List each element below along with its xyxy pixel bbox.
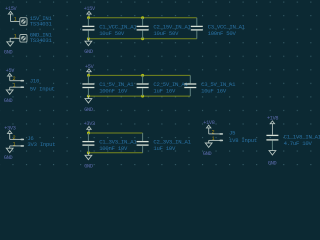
- ground symbol row1 GND: [84, 39, 93, 56]
- power symbol PWR08 +1V8 (cap): [267, 115, 278, 134]
- ground symbol left input GND: [4, 42, 14, 56]
- svg-text:100nF 16V: 100nF 16V: [99, 88, 128, 95]
- svg-text:GND: GND: [4, 49, 13, 55]
- wire 15V bottom bus: [88, 38, 196, 40]
- svg-text:5V Input: 5V Input: [30, 86, 55, 93]
- junction row2 top at C1: [87, 74, 90, 77]
- power symbol PWR01 +15V: [5, 6, 17, 14]
- junction row1 bottom at C2: [141, 37, 144, 40]
- svg-text:TS34031: TS34031: [30, 20, 53, 27]
- svg-text:J10: J10: [30, 77, 40, 84]
- connector pin J5 pin 2: [209, 129, 223, 135]
- wire 5V top bus: [89, 74, 191, 76]
- svg-text:1: 1: [13, 83, 16, 89]
- svg-text:+15V: +15V: [84, 6, 96, 12]
- svg-text:2: 2: [13, 76, 16, 82]
- wire J10 pin 1 to GND: [9, 87, 11, 90]
- junction row2 top at C2: [141, 74, 144, 77]
- connector pin J6 pin 2: [10, 135, 24, 141]
- svg-text:+15V: +15V: [5, 6, 17, 12]
- svg-text:10uF 50V: 10uF 50V: [153, 30, 179, 37]
- terminal 15V_IN1: [20, 18, 27, 26]
- wire 3V3 top bus: [89, 132, 143, 134]
- wire +15V arrow to 15V_IN1 pin: [11, 21, 20, 23]
- capacitor C1_3V3_IN_A1: [82, 133, 137, 153]
- svg-text:GND: GND: [4, 155, 13, 161]
- junction row3 top at C1: [87, 132, 90, 135]
- power symbol PWR07 +1V8 (J5): [203, 120, 214, 128]
- svg-text:2: 2: [212, 129, 215, 135]
- wire 15V top bus: [89, 17, 197, 19]
- svg-text:GND: GND: [4, 98, 13, 104]
- svg-text:1uF 16V: 1uF 16V: [153, 88, 176, 95]
- svg-text:10uF 50V: 10uF 50V: [99, 30, 125, 37]
- junction row1 top at C2: [141, 16, 144, 19]
- wire +1V8 to J5 pin 2: [208, 128, 210, 134]
- wire +5V to J10 pin 2: [9, 76, 11, 81]
- svg-text:GND: GND: [203, 151, 212, 157]
- svg-text:+5V: +5V: [6, 68, 16, 74]
- svg-text:GND: GND: [84, 164, 93, 170]
- capacitor C1_5V_IN_A1: [82, 75, 134, 96]
- power symbol PWR05 +5V (J10): [6, 68, 16, 76]
- power symbol PWR06 +3V3 (J6): [4, 126, 15, 134]
- connector pin J6 pin 1: [10, 141, 24, 147]
- ground symbol row2 GND: [84, 96, 93, 113]
- wire 5V bottom bus: [88, 95, 190, 97]
- svg-text:GND: GND: [268, 161, 277, 167]
- junction row2 bottom at C2: [141, 95, 144, 98]
- power symbol PWR04 +3V3 (row3): [84, 121, 95, 133]
- svg-text:2: 2: [13, 135, 16, 141]
- capacitor C2_3V3_IN_A1: [137, 133, 192, 153]
- svg-text:1: 1: [212, 136, 215, 142]
- svg-text:1uF 10V: 1uF 10V: [153, 145, 176, 152]
- ground symbol row3 GND: [84, 153, 93, 170]
- svg-text:3V3 Input: 3V3 Input: [27, 141, 55, 148]
- svg-text:1: 1: [14, 33, 17, 39]
- svg-text:GND: GND: [84, 107, 93, 113]
- junction row1 bottom at C1: [87, 37, 90, 40]
- wire +3V3 to J6 pin 2: [9, 133, 11, 139]
- svg-text:+5V: +5V: [85, 64, 95, 70]
- svg-text:TS34031: TS34031: [30, 37, 53, 44]
- svg-text:1V8 Input: 1V8 Input: [229, 137, 257, 144]
- junction row3 bottom at C1: [87, 151, 90, 154]
- wire GND_IN1 pin to GND: [10, 38, 19, 42]
- capacitor C3_VCC_IN_A1: [191, 18, 246, 39]
- svg-text:GND: GND: [84, 49, 93, 55]
- capacitor C2_5V_IN_A1: [137, 75, 189, 96]
- junction row2 bottom at C1: [87, 95, 90, 98]
- ground symbol J6 GND: [4, 148, 13, 161]
- svg-text:1: 1: [13, 141, 16, 147]
- wire 3V3 bottom bus: [88, 152, 142, 154]
- svg-text:100nF 50V: 100nF 50V: [208, 30, 237, 37]
- capacitor C1_1V8_IN_A1: [266, 134, 320, 151]
- power symbol PWR03 +5V (row2): [85, 64, 95, 76]
- capacitor C1_VCC_IN_A1: [82, 18, 137, 39]
- svg-text:4.7uF 10V: 4.7uF 10V: [284, 140, 313, 147]
- power symbol PWR02 +15V (row1): [84, 6, 96, 18]
- ground symbol J5 GND: [203, 143, 212, 157]
- ground symbol 1V8 GND: [268, 151, 277, 167]
- svg-text:1: 1: [14, 17, 17, 23]
- capacitor C2_15V_IN_A1: [137, 18, 192, 39]
- connector pin J10 pin 1: [10, 83, 24, 89]
- wire J5 pin 1 to GND: [208, 140, 210, 143]
- terminal GND_IN1: [20, 35, 27, 43]
- wire J6 pin 1 to GND: [9, 146, 11, 148]
- svg-text:+1V8: +1V8: [267, 115, 278, 121]
- connector pin J5 pin 1: [209, 136, 223, 142]
- svg-text:100nF 10V: 100nF 10V: [99, 145, 128, 152]
- ground symbol J10 GND: [4, 90, 13, 104]
- svg-text:10uF 16V: 10uF 16V: [201, 88, 227, 95]
- capacitor C3_5V_IN_A1: [184, 75, 236, 96]
- connector pin J10 pin 2: [10, 76, 24, 82]
- svg-text:J5: J5: [229, 130, 235, 137]
- junction row1 top at C1: [87, 16, 90, 19]
